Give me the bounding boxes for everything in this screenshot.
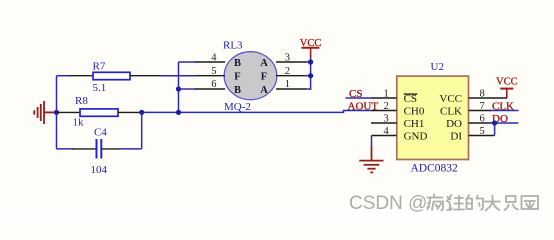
junction (310.6,75.7) <box>308 73 313 78</box>
pin R7.2 <box>130 75 161 77</box>
junction node A (56.5,112.4) <box>54 110 59 115</box>
junction (178.5,89) <box>176 86 181 91</box>
svg-text:DO: DO <box>446 118 462 130</box>
pin R8.2 <box>118 111 142 113</box>
svg-text:VCC: VCC <box>439 93 462 105</box>
wire DI to DO <box>494 123 496 136</box>
junction (178.5,112.4) <box>176 110 181 115</box>
svg-text:RL3: RL3 <box>223 40 243 52</box>
capacitor C4 <box>91 127 108 177</box>
gas sensor RL3 MQ-2 body <box>223 40 277 114</box>
pin RL3.3 <box>276 52 306 63</box>
wire to sensor pin6 <box>179 88 197 90</box>
sensor pin letters left B F B <box>234 58 241 96</box>
pin U2.5 <box>469 126 495 137</box>
svg-text:A: A <box>260 58 268 69</box>
resistor R7 <box>93 61 131 95</box>
svg-text:5.1: 5.1 <box>93 82 107 94</box>
pin R8.1 <box>57 111 81 113</box>
wire to sensor pin4 <box>179 61 197 63</box>
pin C4.1 <box>72 148 96 150</box>
svg-text:R8: R8 <box>75 95 88 107</box>
wire C4 bottom left <box>57 148 74 150</box>
svg-text:A: A <box>260 85 268 96</box>
resistor R8 <box>73 95 119 129</box>
svg-text:1: 1 <box>384 88 389 99</box>
svg-text:CSDN @: CSDN @ <box>349 193 427 214</box>
svg-text:4: 4 <box>211 52 217 63</box>
svg-text:GND: GND <box>404 131 428 143</box>
svg-text:6: 6 <box>480 113 485 124</box>
svg-text:C4: C4 <box>94 127 107 139</box>
svg-text:CS: CS <box>404 93 417 105</box>
pin RL3.1 <box>276 79 306 90</box>
svg-text:AOUT: AOUT <box>348 100 379 112</box>
wire R7 to sensor pin5 <box>160 75 196 77</box>
wire R7 left <box>57 75 72 77</box>
pin C4.2 <box>102 148 120 150</box>
svg-text:3: 3 <box>384 113 389 124</box>
net label AOUT <box>348 100 379 112</box>
svg-text:U2: U2 <box>431 61 444 73</box>
wire C4 to node B <box>119 148 142 150</box>
ground GND1 (power ground, left) <box>34 101 56 124</box>
pin RL3.6 <box>195 79 225 90</box>
power VCC1 symbol <box>300 38 322 58</box>
wire sensor-right vertical x=310.6 <box>310 57 312 90</box>
pin U2.7 <box>469 101 492 112</box>
pin U2.3 <box>371 113 397 124</box>
pin R7.1 <box>70 75 93 77</box>
U2 pin name CLK <box>440 106 462 118</box>
wire C4 right vertical x=141.7 <box>141 112 143 148</box>
pin U2.6 <box>469 113 492 124</box>
svg-text:MQ-2: MQ-2 <box>224 101 251 113</box>
U2 pin name DO <box>446 118 462 130</box>
IC U2 body <box>397 61 469 174</box>
U2 pin name VCC <box>439 93 462 105</box>
junction node B (141.7,112.4) <box>139 110 144 115</box>
U2 pin name CH1 <box>404 118 425 130</box>
svg-text:6: 6 <box>211 79 216 90</box>
svg-text:CH0: CH0 <box>404 106 425 118</box>
svg-text:VCC: VCC <box>496 77 518 88</box>
svg-text:4: 4 <box>384 126 390 137</box>
net label CLK <box>492 100 514 112</box>
pin RL3.4 <box>195 52 225 63</box>
svg-text:5: 5 <box>480 126 485 137</box>
svg-text:CLK: CLK <box>492 100 514 112</box>
svg-text:1k: 1k <box>73 117 85 129</box>
svg-text:3: 3 <box>285 52 290 63</box>
pin RL3.2 <box>276 66 306 77</box>
svg-text:R7: R7 <box>93 61 106 73</box>
svg-text:8: 8 <box>480 88 485 99</box>
pin U2.1 <box>346 88 397 99</box>
wire left vertical x=56.5 <box>56 76 58 149</box>
svg-text:2: 2 <box>384 101 389 112</box>
svg-text:5: 5 <box>211 66 216 77</box>
svg-text:104: 104 <box>91 164 108 176</box>
ground GND2 (earth) <box>359 146 383 172</box>
svg-text:F: F <box>234 72 240 83</box>
watermark CSDN <box>349 193 428 215</box>
wire sensor-left vertical x=178.5 <box>178 62 180 112</box>
junction (310.6,62) <box>308 59 313 64</box>
wire AOUT horizontal <box>142 111 345 113</box>
U2 pin name DI <box>450 131 462 143</box>
svg-text:CH1: CH1 <box>404 118 425 130</box>
pin U2.4 <box>372 126 397 137</box>
svg-text:1: 1 <box>285 79 290 90</box>
pin U2.8 <box>469 88 508 99</box>
junction (494.6,123) <box>492 120 497 125</box>
svg-text:DI: DI <box>450 131 462 143</box>
U2 pin name GND <box>404 131 428 143</box>
power VCC2 symbol <box>496 77 518 99</box>
svg-text:ADC0832: ADC0832 <box>411 162 459 174</box>
net label DO <box>492 113 508 125</box>
svg-text:B: B <box>234 85 241 96</box>
svg-text:2: 2 <box>285 66 290 77</box>
net label CS <box>349 88 362 100</box>
sensor pin letters right A F A <box>260 58 268 96</box>
wire U2 GND down <box>371 136 373 148</box>
wire CLK <box>490 110 519 112</box>
svg-text:F: F <box>261 72 267 83</box>
wire DO <box>490 122 519 124</box>
pin RL3.5 <box>195 66 225 77</box>
U2 pin name CH0 <box>404 106 425 118</box>
svg-text:B: B <box>234 58 241 69</box>
svg-text:CLK: CLK <box>440 106 462 118</box>
svg-text:7: 7 <box>480 101 485 112</box>
svg-text:CS: CS <box>349 88 362 100</box>
U2 pin name CS (overline) <box>404 93 418 105</box>
watermark hanzi strokes <box>428 195 540 212</box>
pin U2.2 <box>344 101 397 113</box>
svg-text:VCC: VCC <box>300 38 322 49</box>
wire sensor-right pins to vertical <box>305 62 311 89</box>
